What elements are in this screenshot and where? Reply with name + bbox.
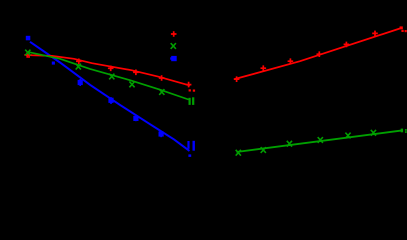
wire: green fit line (right panel) [237, 130, 404, 152]
wire: red fit line (right panel) [234, 28, 403, 80]
node: green end dot a (right) [401, 129, 403, 133]
node: blue data point 1 [26, 36, 31, 41]
node: blue error bar a (end) [187, 141, 189, 149]
node: red end dot b [193, 90, 195, 92]
node: green error bar b (end) [192, 97, 194, 105]
node: red end dot a (right) [400, 26, 403, 29]
node: blue error bar b (end) [192, 141, 194, 151]
node: legend red plus [171, 31, 177, 37]
node: red end dot b (right) [405, 30, 407, 32]
node: red end dot a [189, 89, 191, 91]
node: blue data point 6 [159, 131, 163, 137]
node: green error bar a (end) [189, 98, 191, 105]
node: legend blue square [170, 56, 177, 61]
wire: red fit line (left panel) [28, 55, 190, 85]
node: green data points (left panel) [25, 50, 164, 95]
node: red data points (right panel) [234, 31, 378, 82]
node: green end dot b (right) [405, 131, 407, 133]
node: blue data point 5 [134, 116, 138, 121]
node: blue data point 3 [78, 79, 82, 86]
node: blue end dot [188, 154, 191, 157]
wire: green fit line (left panel) [29, 52, 189, 99]
wire: blue fit line (left panel) [30, 42, 190, 151]
node: red data points (left panel) [24, 52, 191, 87]
node: legend green cross [171, 43, 176, 49]
node: blue data point 4 [109, 97, 113, 104]
node: green data points (right panel) [236, 130, 376, 156]
node: blue data point 2 (small) [52, 62, 55, 65]
